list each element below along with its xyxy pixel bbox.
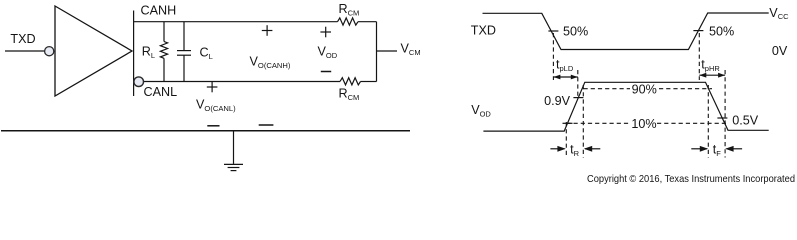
svg-text:VOD: VOD <box>471 103 491 119</box>
svg-text:CANL: CANL <box>144 85 178 99</box>
svg-text:50%: 50% <box>563 25 588 39</box>
svg-text:RL: RL <box>142 44 155 60</box>
svg-text:10%: 10% <box>631 117 656 131</box>
svg-text:tR: tR <box>570 142 580 158</box>
svg-text:VO(CANL): VO(CANL) <box>196 97 236 113</box>
svg-text:VCC: VCC <box>769 6 789 21</box>
svg-text:tpHR: tpHR <box>701 58 720 74</box>
svg-text:tF: tF <box>713 142 722 158</box>
svg-text:VCM: VCM <box>401 41 421 57</box>
svg-text:0.9V: 0.9V <box>544 94 571 108</box>
svg-text:50%: 50% <box>709 25 734 39</box>
svg-text:0.5V: 0.5V <box>732 114 759 128</box>
svg-text:Copyright © 2016, Texas Instru: Copyright © 2016, Texas Instruments Inco… <box>587 173 795 185</box>
svg-text:TXD: TXD <box>471 23 496 37</box>
svg-text:0V: 0V <box>772 44 788 58</box>
svg-text:90%: 90% <box>632 82 657 96</box>
svg-text:CL: CL <box>200 46 213 62</box>
svg-text:TXD: TXD <box>10 32 35 46</box>
svg-text:RCM: RCM <box>339 86 360 102</box>
svg-text:CANH: CANH <box>141 4 177 18</box>
svg-text:VOD: VOD <box>318 45 338 60</box>
svg-text:VO(CANH): VO(CANH) <box>250 55 291 71</box>
svg-text:RCM: RCM <box>339 2 360 17</box>
svg-text:tpLD: tpLD <box>556 58 574 74</box>
